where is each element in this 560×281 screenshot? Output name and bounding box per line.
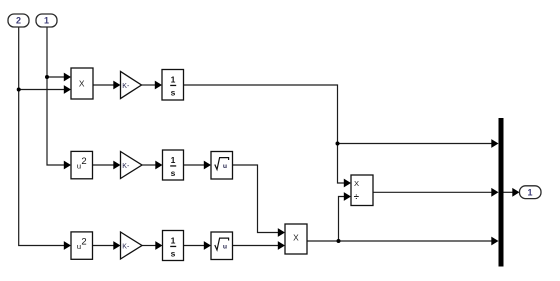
svg-text:1: 1	[44, 16, 49, 26]
svg-text:s: s	[171, 88, 176, 98]
svg-text:÷: ÷	[354, 192, 359, 203]
svg-text:K-: K-	[122, 243, 130, 250]
svg-text:K-: K-	[122, 163, 130, 170]
svg-text:2: 2	[16, 16, 21, 26]
svg-text:X: X	[354, 179, 359, 188]
svg-text:X: X	[293, 233, 299, 243]
svg-text:u: u	[223, 244, 227, 251]
svg-text:s: s	[171, 168, 176, 178]
svg-text:1: 1	[171, 155, 176, 165]
svg-text:1: 1	[171, 75, 176, 85]
svg-text:u: u	[223, 163, 227, 170]
svg-text:K-: K-	[122, 83, 130, 90]
svg-text:2: 2	[81, 237, 86, 248]
svg-text:X: X	[79, 79, 85, 89]
svg-text:1: 1	[171, 236, 176, 246]
svg-text:2: 2	[81, 156, 86, 167]
svg-text:1: 1	[527, 188, 532, 198]
svg-text:s: s	[171, 249, 176, 259]
